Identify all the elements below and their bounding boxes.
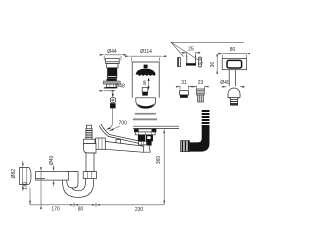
tick x96 [95,203,97,207]
dimension Ø44 line with arrows [104,55,121,61]
svg-text:25: 25 [188,47,194,53]
gasket line 2 [133,118,157,120]
svg-text:36: 36 [210,62,216,68]
drain side lug [147,141,152,146]
overflow cover inner [227,60,242,68]
dimension 36 line [216,55,218,74]
svg-text:80: 80 [78,206,84,212]
dimension 31 line [176,86,193,90]
hose corrugated top [202,110,210,127]
svg-text:170: 170 [51,206,60,212]
wall outlet pipe [36,172,69,181]
dimension 700 leader [112,126,120,129]
hose body elbow [189,127,209,152]
tee body [84,144,96,154]
plug bottom dark edge [104,87,117,88]
svg-text:130: 130 [23,182,29,191]
dimension 23 line [193,86,209,90]
dome nut body [228,88,240,100]
tube left nut [96,138,106,149]
Ø40 arrow top [53,165,55,167]
strainer stem black [142,92,148,96]
chain link [110,98,115,103]
standpipe nut [84,139,95,143]
wedge lower [197,95,203,102]
plug rod arrow [112,90,114,95]
overflow cover outer [222,59,246,70]
sink flat bottom line 2 [133,128,179,130]
dimension 80 line [223,54,247,58]
svg-text:230: 230 [135,207,144,213]
standpipe threads [86,129,92,139]
drain flange [134,129,156,132]
drain body left block [138,135,145,142]
svg-text:31: 31 [181,80,187,86]
svg-text:Ø48: Ø48 [115,84,125,90]
sink flat bottom line 1 [133,125,179,127]
svg-text:Ø40: Ø40 [220,80,230,86]
leader from plug to sink tube [108,108,113,129]
svg-text:23: 23 [198,80,204,86]
tick x74 [73,203,75,207]
sink bowl upper curve [101,124,143,142]
svg-text:Ø40: Ø40 [49,155,55,165]
trap outer arc [63,179,94,198]
dimension 46 inside [148,79,150,89]
svg-text:360: 360 [156,156,162,165]
trap nut [83,172,96,179]
drop pipe [86,153,94,172]
130 line [40,172,42,205]
strainer stem white [142,88,148,92]
sleeve body [180,91,189,95]
plug upper body [107,64,118,68]
outlet elbow [67,172,78,189]
strainer bowl [136,98,156,109]
bracket U channel [187,56,196,66]
Ø82 arrow top [22,161,24,163]
360 line [163,129,165,204]
waste tube outline [105,141,144,152]
plug lower white collar [107,84,117,87]
wedge body hatched [197,89,205,95]
svg-text:Ø44: Ø44 [107,49,117,55]
chain stop black [110,103,116,108]
bracket left tab [178,58,181,67]
gasket line 1 [135,113,156,115]
strainer mushroom knob [144,65,148,69]
dimension Ø114 line [130,56,162,61]
plug black collar band [107,79,117,81]
callout polyline [171,42,244,56]
wall rosette Ø82 [20,167,31,184]
standpipe cap [86,125,91,129]
dimension Ø40 line [222,86,245,88]
svg-text:Ø82: Ø82 [11,169,17,179]
Ø40 arrow bottom [53,184,55,186]
Ø82 arrow bottom [22,189,24,191]
svg-text:46: 46 [142,80,148,86]
baseline [30,204,164,206]
drain nut [139,141,147,145]
hose end collar [181,141,190,152]
plug cap [106,58,120,63]
dome nut thread [230,100,237,106]
sleeve dark band [180,95,188,98]
drain washer layer [135,132,155,135]
drain tailpiece [142,145,150,152]
drain body right block [146,135,153,142]
sink bowl lower curve [99,126,142,145]
svg-text:700: 700 [119,121,128,127]
plug seal flange hatched [103,81,120,84]
bracket strip with holes [198,57,201,67]
plug black body upper [107,68,117,79]
svg-text:Ø114: Ø114 [140,49,152,55]
dimension Ø48 arrows [100,90,104,92]
strainer body walls [131,62,133,98]
overflow cover pipe [228,70,230,87]
svg-text:80: 80 [230,47,236,53]
trap inner arc [71,179,86,191]
dimension 25 line [182,52,201,57]
strainer mushroom cap [136,69,156,76]
